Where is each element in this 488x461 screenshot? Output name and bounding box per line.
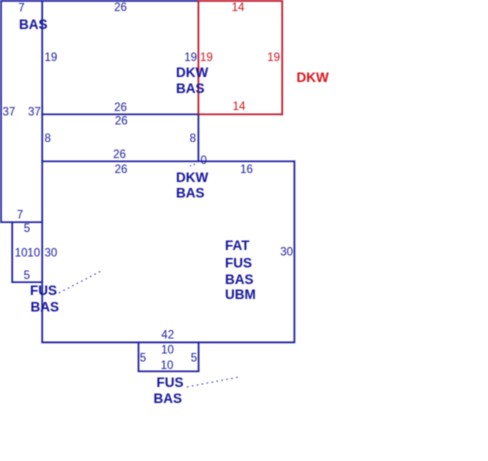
wall: horizontal blue y161, x42..294 (top of main lower section) (41, 160, 295, 162)
wall: red west edge of DKW porch x199, y1..114 (197, 0, 199, 114)
svg-text:37: 37 (3, 107, 16, 119)
wall: west edge of small left bump x11, y221..281 (11, 222, 13, 283)
svg-text:19: 19 (200, 52, 213, 64)
svg-text:BAS: BAS (19, 17, 48, 32)
svg-text:5: 5 (24, 270, 30, 282)
svg-text:FUS: FUS (225, 256, 252, 271)
svg-text:BAS: BAS (31, 300, 60, 315)
wall: top edge blue (left strip + BAS/DKW area), x1..199 at y1 (0, 0, 198, 2)
svg-text:BAS: BAS (225, 272, 254, 287)
svg-text:5: 5 (24, 223, 30, 235)
svg-text:14: 14 (233, 101, 246, 113)
wall: far-left west wall, x1, y1..221 (0, 0, 2, 223)
svg-text:FUS: FUS (157, 375, 184, 390)
svg-text:DKW: DKW (176, 65, 208, 80)
wall: east wall of main lower section x294, y161..343 (293, 160, 295, 343)
wall: main interior vertical x42, y1..343 (41, 0, 43, 343)
svg-text:30: 30 (280, 246, 293, 258)
svg-text:14: 14 (232, 2, 245, 14)
svg-text:42: 42 (161, 330, 174, 342)
svg-text:19: 19 (184, 52, 197, 64)
wall: east edge of bottom stoop x198, y343..371 (198, 342, 200, 371)
svg-text:19: 19 (45, 52, 58, 64)
svg-text:0: 0 (201, 155, 207, 167)
wall: horizontal blue y114, x42..199 (41, 113, 198, 115)
leader: tiny dotted mark near 0 label (190, 164, 197, 167)
svg-text:8: 8 (190, 133, 196, 145)
svg-text:16: 16 (240, 164, 253, 176)
svg-text:UBM: UBM (225, 287, 256, 302)
wall: bottom of main lower section y343, x42..294 (41, 341, 295, 343)
svg-text:10: 10 (15, 247, 28, 259)
wall: bottom of left strip y221, x1..42 (0, 221, 43, 223)
svg-text:26: 26 (115, 164, 128, 176)
svg-text:8: 8 (45, 133, 51, 145)
svg-text:BAS: BAS (176, 185, 205, 200)
svg-text:7: 7 (17, 209, 23, 221)
svg-text:FAT: FAT (225, 238, 250, 253)
svg-text:DKW: DKW (176, 170, 208, 185)
wall: red east edge of DKW porch x282, y1..114 (281, 0, 283, 115)
svg-text:10: 10 (161, 360, 174, 372)
svg-text:BAS: BAS (154, 391, 183, 406)
wall: bottom of small left bump y281, x11..42 (11, 281, 43, 283)
svg-text:5: 5 (140, 353, 146, 365)
svg-text:10: 10 (161, 344, 174, 356)
svg-text:5: 5 (191, 353, 197, 365)
svg-text:10: 10 (27, 247, 40, 259)
svg-text:26: 26 (115, 116, 128, 128)
svg-text:37: 37 (28, 107, 41, 119)
wall: horizontal red y114, x199..282 (bottom of red DKW porch) (198, 113, 283, 115)
svg-text:BAS: BAS (176, 81, 205, 96)
wall: west edge of bottom stoop x136, y343..371 (138, 342, 140, 371)
svg-text:26: 26 (114, 2, 127, 14)
svg-text:26: 26 (114, 102, 127, 114)
leader: dotted line from left FUS/BAS label (59, 271, 101, 293)
svg-text:30: 30 (45, 248, 58, 260)
svg-text:DKW: DKW (297, 70, 329, 85)
wall: bottom of bottom stoop y371, x136..198 (138, 370, 200, 372)
svg-text:7: 7 (18, 3, 24, 15)
svg-text:FUS: FUS (30, 283, 57, 298)
leader: dotted line from bottom FUS/BAS label (187, 377, 239, 387)
wall: blue vertical x199, y114..161 (197, 114, 199, 161)
svg-text:26: 26 (113, 149, 126, 161)
svg-text:19: 19 (267, 52, 280, 64)
wall: top edge red (DKW porch), x199..282 at y1 (198, 0, 282, 2)
